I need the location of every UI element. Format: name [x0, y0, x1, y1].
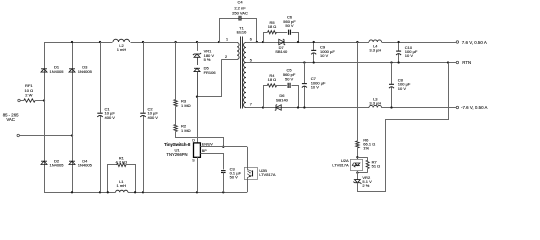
diode D1 — [41, 69, 47, 72]
wire LED to VR2 — [357, 171, 359, 180]
capacitor C1 — [97, 113, 102, 117]
resistor R4 — [267, 84, 276, 87]
wire clamp from top rail — [197, 42, 199, 51]
svg-text:18 Ω: 18 Ω — [268, 77, 277, 82]
terminal RTN — [456, 61, 458, 63]
wire R6 to LED node — [357, 148, 359, 159]
svg-text:1: 1 — [226, 37, 228, 41]
svg-text:D: D — [192, 138, 195, 142]
capacitor C8 — [389, 84, 394, 88]
svg-text:SB140: SB140 — [275, 49, 288, 54]
label D5 FR106 — [204, 66, 217, 75]
junction top rail / C4 branch — [218, 41, 220, 43]
label C10 100uF 10V — [405, 45, 418, 58]
svg-text:BP: BP — [202, 149, 207, 153]
label VR1 180V 5% — [204, 48, 215, 62]
label R2 1 MOhm — [181, 124, 191, 133]
svg-text:SB140: SB140 — [276, 97, 289, 102]
resistor R1 branch wires — [108, 165, 136, 193]
svg-text:TNY266PN: TNY266PN — [166, 152, 187, 157]
inductor L4 — [369, 40, 381, 42]
svg-text:1N4005: 1N4005 — [49, 69, 64, 74]
label pin BP — [202, 149, 207, 153]
svg-text:LTV817A: LTV817A — [332, 162, 349, 167]
wire BP pin — [201, 154, 224, 170]
diode D4 — [69, 161, 75, 164]
resistor R6 — [356, 141, 359, 148]
terminal +7.6V output — [456, 41, 458, 43]
inductor L2 — [113, 39, 130, 42]
junction C9 top — [313, 41, 315, 43]
transistor U2B phototransistor — [247, 168, 252, 180]
label C1 10uF 400V — [105, 106, 116, 120]
label R7 51 Ohm — [372, 159, 381, 168]
junction R7 branch bottom — [356, 171, 358, 173]
wire top rail to primary pin 1 — [219, 42, 237, 44]
svg-text:3.3 µH: 3.3 µH — [369, 48, 381, 53]
diode D5 — [194, 68, 200, 96]
junction C7 bottom — [303, 106, 305, 108]
junction EN/UV node — [222, 146, 224, 148]
junction snubber left — [262, 41, 264, 43]
svg-text:1%: 1% — [363, 146, 369, 151]
label U1 TNY266PN — [166, 152, 187, 157]
wire top DC rail — [44, 42, 237, 44]
svg-text:1 MΩ: 1 MΩ — [181, 128, 191, 133]
label C3 0.1uF 50V — [230, 166, 242, 179]
junction RF1/bridge column — [43, 99, 45, 101]
junction R1 branch left — [107, 191, 109, 193]
label R3 1 MOhm — [181, 99, 191, 108]
junction C8 bottom — [390, 106, 392, 108]
junction top rail / C1 — [99, 41, 101, 43]
svg-text:400 V: 400 V — [105, 115, 116, 120]
svg-text:10 V: 10 V — [311, 85, 320, 90]
transformer T1 core — [241, 37, 243, 109]
wire R3 to R2 — [175, 107, 177, 125]
label L1 1 mH — [117, 179, 127, 188]
label pin S — [192, 159, 195, 163]
label L3 3.3uH — [369, 96, 381, 105]
label R5 18 Ohm — [268, 20, 277, 29]
svg-text:5 %: 5 % — [204, 57, 211, 62]
svg-text:50 V: 50 V — [285, 23, 294, 28]
label RTN — [462, 60, 471, 65]
junction feedback tap — [356, 41, 358, 43]
junction RTN / feedback return — [447, 61, 449, 63]
svg-text:-7.6 V, 0.50 A: -7.6 V, 0.50 A — [461, 105, 488, 110]
junction top rail / C2 — [142, 41, 144, 43]
wire RF1 to bridge node A — [35, 100, 44, 102]
label -7.6 V 0.50 A — [461, 105, 488, 110]
transformer T1 secondary winding — [243, 42, 246, 107]
junction RTN / C8 — [390, 61, 392, 63]
capacitor C6 — [289, 30, 291, 35]
junction snubber right — [297, 41, 299, 43]
label C8 100uF 10V — [398, 77, 411, 90]
capacitor C3 — [221, 171, 226, 193]
svg-text:LTV817A: LTV817A — [259, 172, 276, 177]
label D2 1N4005 — [49, 158, 64, 167]
label D1 1N4005 — [49, 64, 64, 74]
junction bottom rail / U1 source — [196, 191, 198, 193]
svg-text:EE16: EE16 — [237, 30, 248, 35]
svg-text:1 MΩ: 1 MΩ — [181, 103, 191, 108]
capacitor C9 wire — [313, 42, 315, 63]
diode D3 — [69, 69, 75, 72]
capacitor C9 — [311, 50, 316, 54]
terminal -7.6V output — [456, 106, 458, 108]
diode D2 — [41, 161, 47, 164]
label D7 SB140 — [275, 45, 288, 54]
wire source pin to bottom rail — [197, 157, 199, 192]
junction bottom rail / D4 column — [71, 191, 73, 193]
junction neg snubber right — [297, 106, 299, 108]
wire input top to RF1 — [20, 100, 24, 102]
svg-text:10 V: 10 V — [405, 53, 414, 58]
op-amp U2B opto box — [244, 168, 257, 180]
wire clamp to drain jog — [198, 60, 222, 97]
label U2A LTV817A — [332, 158, 349, 167]
svg-text:2 %: 2 % — [362, 183, 369, 188]
wire opto emitter to bottom rail — [247, 179, 249, 192]
label C4 2.2nF 250VAC — [232, 0, 248, 16]
svg-text:FR106: FR106 — [204, 70, 217, 75]
label C5 560pF 50V — [283, 68, 296, 82]
wire bottom DC rail — [44, 192, 247, 194]
junction C10 top — [397, 41, 399, 43]
svg-text:1 mH: 1 mH — [117, 47, 127, 52]
svg-text:2 W: 2 W — [25, 93, 32, 98]
label C2 10uF 400V — [148, 106, 159, 120]
snubber R5/C6 loop — [264, 33, 299, 43]
capacitor C10 — [396, 51, 401, 55]
svg-text:TinySwitch-II: TinySwitch-II — [164, 142, 190, 147]
svg-text:EN/UV: EN/UV — [202, 143, 214, 147]
junction C4 / secondary rail — [256, 41, 258, 43]
label R4 18 Ohm — [268, 73, 277, 82]
wire R7 branch bottom — [357, 169, 367, 173]
inductor L1 — [116, 190, 128, 192]
wire primary pin 2 — [221, 59, 237, 61]
svg-text:1N4005: 1N4005 — [49, 163, 64, 168]
capacitor C4 loop wire — [220, 19, 257, 43]
svg-text:10 V: 10 V — [320, 53, 329, 58]
label C9 1000uF 10V — [320, 45, 335, 58]
capacitor C2 wire — [143, 42, 145, 192]
junction RTN / C10 — [397, 61, 399, 63]
zener VR2 — [353, 180, 361, 184]
svg-text:2: 2 — [225, 55, 227, 59]
svg-text:18 Ω: 18 Ω — [268, 24, 277, 29]
wire bridge column D3/D4 — [72, 42, 74, 192]
junction bottom rail / C2 — [142, 191, 144, 193]
wire feedback return — [358, 63, 449, 192]
junction RTN / C7 — [303, 61, 305, 63]
svg-text:1N4005: 1N4005 — [78, 69, 93, 74]
diode U2A LED — [352, 163, 360, 168]
svg-text:C4: C4 — [237, 0, 243, 4]
resistor R5 — [268, 31, 277, 34]
wire R7 branch top — [357, 157, 367, 160]
svg-text:1N4005: 1N4005 — [78, 163, 93, 168]
label 7.6 V 0.50 A — [462, 40, 487, 45]
svg-text:7.6 V, 0.50 A: 7.6 V, 0.50 A — [462, 40, 487, 45]
input terminal AC neutral (bottom) — [17, 134, 19, 136]
resistor R3 — [174, 100, 177, 107]
svg-text:RTN: RTN — [462, 60, 471, 65]
junction bottom rail / C3 — [222, 191, 224, 193]
junction top rail / D3 column — [71, 41, 73, 43]
wire EN/UV to opto collector — [247, 147, 249, 168]
wire input bottom to bridge node B — [20, 135, 73, 137]
capacitor C4 — [239, 16, 241, 21]
label L2 1 mH — [117, 43, 127, 52]
svg-text:400 V: 400 V — [148, 115, 159, 120]
label C6 560pF 50V — [283, 14, 296, 28]
resistor R2 — [174, 125, 177, 132]
label L4 3.3uH — [369, 43, 381, 52]
svg-text:50 V: 50 V — [285, 76, 294, 81]
wire drain down to U1 — [197, 97, 199, 143]
junction top rail / clamp — [196, 41, 198, 43]
label pin EN/UV — [202, 143, 214, 147]
label pin 1 — [226, 37, 228, 41]
label VR2 5.1V 2% — [362, 175, 372, 188]
label pin 2 — [225, 55, 227, 59]
snubber R4/C5 loop — [264, 86, 299, 108]
capacitor C7 — [302, 84, 307, 88]
svg-text:10 V: 10 V — [398, 86, 407, 91]
capacitor C1 wire — [100, 42, 102, 192]
label R1 4.7 kOhm — [115, 155, 127, 164]
junction clamp/drain — [196, 96, 198, 98]
svg-text:3.3 µH: 3.3 µH — [369, 101, 381, 106]
capacitor C8 wire — [391, 63, 393, 108]
label R6 66.1 Ohm 1% — [363, 137, 375, 150]
capacitor C5 — [288, 83, 290, 88]
op-amp U2A opto box — [351, 159, 363, 170]
label pin D — [192, 138, 195, 142]
wire bridge column D1/D2 — [44, 42, 46, 192]
resistor R7 — [366, 160, 369, 168]
wire EN/UV pin — [200, 146, 247, 148]
input terminal AC line (top) — [18, 99, 20, 101]
label U2B LTV817A — [259, 168, 276, 177]
svg-text:50 V: 50 V — [230, 175, 239, 180]
label D3 1N4005 — [78, 64, 93, 74]
label C7 1000uF 10V — [311, 76, 326, 89]
label D6 SB140 — [276, 93, 289, 102]
label U1 — [174, 148, 180, 153]
diode D6 — [275, 105, 281, 110]
svg-text:1 mH: 1 mH — [117, 183, 127, 188]
wire R2 to EN/UV — [176, 132, 224, 147]
zener VR1 — [193, 53, 201, 65]
diode D7 — [279, 39, 285, 44]
wire RTN rail — [246, 62, 456, 64]
svg-text:51 Ω: 51 Ω — [372, 164, 381, 169]
label U1 TinySwitch-II — [164, 142, 190, 147]
wire secondary top rail — [246, 42, 456, 44]
junction RTN / C9 — [313, 61, 315, 63]
junction top rail / R3 — [174, 41, 176, 43]
svg-text:6: 6 — [250, 37, 252, 41]
label D4 1N4005 — [78, 158, 93, 167]
junction AC2/bridge column — [71, 134, 73, 136]
label pin 5 — [250, 59, 252, 63]
resistor RF1 — [24, 99, 35, 102]
svg-text:4.7 kΩ: 4.7 kΩ — [115, 159, 127, 164]
svg-text:250 VAC: 250 VAC — [232, 11, 248, 16]
capacitor C7 wire — [304, 63, 306, 108]
svg-text:7: 7 — [250, 102, 252, 106]
junction bottom rail / C1 — [99, 191, 101, 193]
capacitor C10 wire — [398, 42, 400, 63]
capacitor C2 — [140, 113, 145, 117]
label T1 EE16 — [237, 25, 248, 34]
transformer T1 primary winding — [237, 43, 239, 60]
resistor R1 — [117, 163, 126, 166]
label RF1 10 Ohm 2 W — [25, 83, 34, 98]
label input voltage 85-265 VAC — [3, 112, 19, 121]
resistor R3 wire top — [175, 42, 177, 100]
wire secondary bottom rail — [246, 107, 456, 109]
wire feedback from +7.6V rail — [357, 42, 359, 141]
svg-text:VAC: VAC — [6, 117, 15, 122]
junction R7 branch top — [356, 156, 358, 158]
label pin 7 — [250, 102, 252, 106]
label pin 6 — [250, 37, 252, 41]
junction R1 branch right — [134, 191, 136, 193]
op-amp U1 TNY266PN box — [194, 143, 201, 157]
junction neg snubber left — [262, 106, 264, 108]
inductor L3 — [369, 105, 381, 107]
